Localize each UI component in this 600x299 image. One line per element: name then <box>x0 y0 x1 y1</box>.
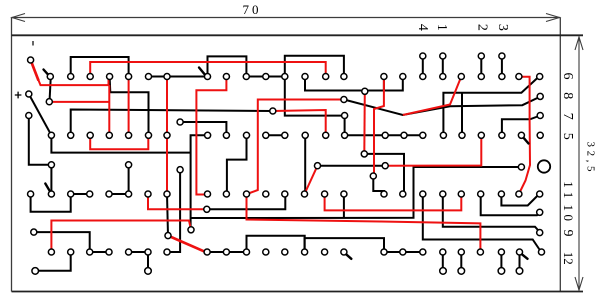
svg-text:1: 1 <box>434 24 449 31</box>
svg-text:9: 9 <box>560 230 575 237</box>
svg-text:7: 7 <box>560 113 575 120</box>
svg-text:12: 12 <box>561 252 576 265</box>
svg-text:3: 3 <box>495 24 510 31</box>
svg-text:6: 6 <box>560 73 575 80</box>
svg-text:2: 2 <box>475 24 490 31</box>
svg-text:5: 5 <box>560 133 575 140</box>
svg-text:4: 4 <box>415 24 430 31</box>
svg-text:8: 8 <box>560 92 575 99</box>
